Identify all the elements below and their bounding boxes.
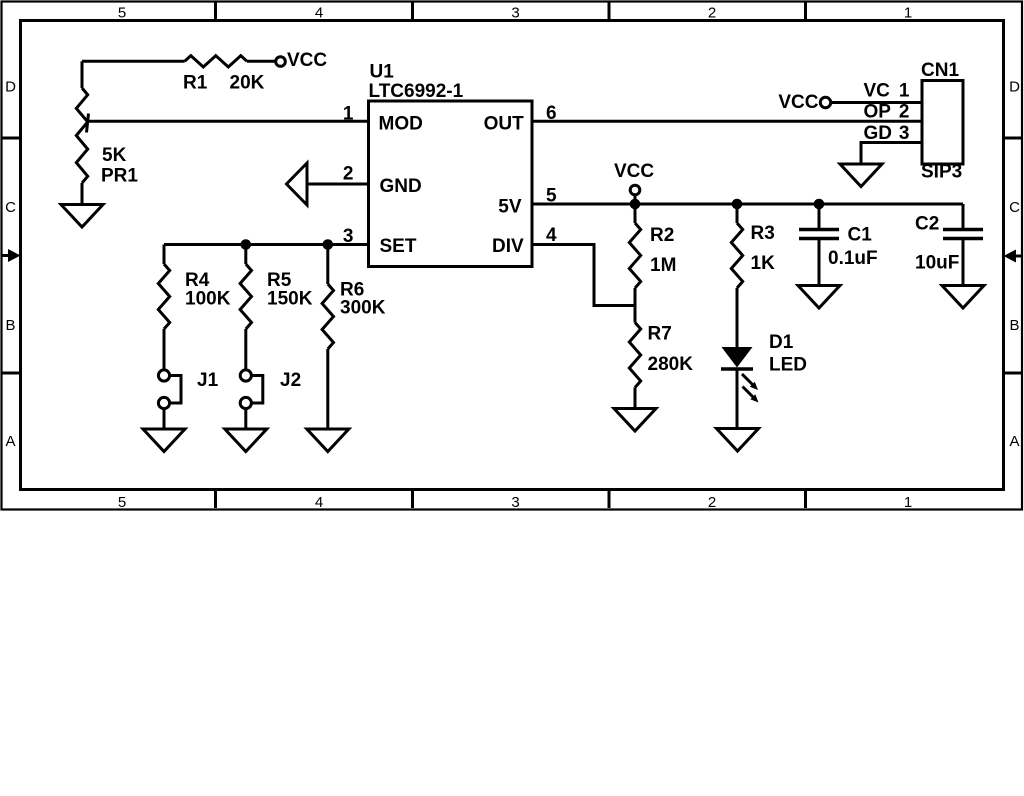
- svg-text:VCC: VCC: [778, 92, 818, 113]
- svg-text:VCC: VCC: [614, 161, 654, 182]
- svg-text:D: D: [1009, 79, 1020, 96]
- svg-text:1: 1: [343, 104, 354, 125]
- svg-text:1K: 1K: [751, 253, 776, 274]
- svg-text:150K: 150K: [267, 289, 313, 310]
- svg-text:3: 3: [511, 5, 519, 22]
- svg-text:5: 5: [118, 494, 126, 511]
- svg-text:A: A: [1009, 433, 1019, 450]
- svg-text:280K: 280K: [648, 354, 694, 375]
- svg-text:R1: R1: [183, 73, 208, 94]
- svg-text:D1: D1: [769, 332, 794, 353]
- svg-text:2: 2: [899, 102, 910, 123]
- svg-text:B: B: [5, 317, 15, 334]
- svg-text:B: B: [1009, 317, 1019, 334]
- svg-text:3: 3: [511, 494, 519, 511]
- svg-text:1M: 1M: [650, 255, 676, 276]
- svg-text:J1: J1: [197, 370, 219, 391]
- svg-text:J2: J2: [280, 370, 301, 391]
- svg-text:2: 2: [708, 5, 716, 22]
- svg-text:1: 1: [904, 494, 912, 511]
- svg-text:GND: GND: [380, 176, 422, 197]
- svg-text:OUT: OUT: [484, 114, 525, 135]
- svg-text:4: 4: [546, 225, 557, 246]
- svg-text:GD: GD: [864, 123, 893, 144]
- svg-text:MOD: MOD: [379, 114, 423, 135]
- svg-text:20K: 20K: [230, 73, 265, 94]
- svg-text:SIP3: SIP3: [921, 162, 962, 183]
- svg-text:300K: 300K: [340, 298, 386, 319]
- svg-text:C: C: [5, 199, 16, 216]
- svg-text:2: 2: [708, 494, 716, 511]
- svg-text:R7: R7: [648, 324, 672, 345]
- svg-text:0.1uF: 0.1uF: [828, 248, 878, 269]
- svg-text:10uF: 10uF: [915, 253, 959, 274]
- svg-text:C: C: [1009, 199, 1020, 216]
- svg-text:5K: 5K: [102, 145, 127, 166]
- svg-text:5: 5: [546, 186, 557, 207]
- svg-text:LED: LED: [769, 355, 807, 376]
- svg-text:R2: R2: [650, 225, 674, 246]
- svg-text:VCC: VCC: [287, 50, 327, 71]
- svg-text:PR1: PR1: [101, 166, 138, 187]
- svg-text:1: 1: [904, 5, 912, 22]
- svg-text:LTC6992-1: LTC6992-1: [369, 81, 464, 102]
- svg-text:C2: C2: [915, 214, 939, 235]
- svg-text:A: A: [5, 433, 15, 450]
- svg-text:100K: 100K: [185, 289, 231, 310]
- svg-text:VC: VC: [864, 81, 891, 102]
- svg-text:4: 4: [315, 5, 323, 22]
- svg-text:C1: C1: [848, 225, 873, 246]
- svg-text:5V: 5V: [498, 197, 522, 218]
- svg-text:4: 4: [315, 494, 323, 511]
- svg-text:U1: U1: [370, 62, 395, 83]
- svg-text:D: D: [5, 79, 16, 96]
- svg-text:DIV: DIV: [492, 236, 524, 257]
- svg-text:1: 1: [899, 81, 910, 102]
- svg-text:3: 3: [899, 123, 910, 144]
- svg-text:CN1: CN1: [921, 60, 959, 81]
- svg-text:R3: R3: [751, 223, 775, 244]
- svg-text:3: 3: [343, 226, 354, 247]
- svg-text:SET: SET: [380, 236, 417, 257]
- svg-text:2: 2: [343, 164, 354, 185]
- svg-text:5: 5: [118, 5, 126, 22]
- svg-text:OP: OP: [864, 102, 892, 123]
- svg-text:6: 6: [546, 103, 557, 124]
